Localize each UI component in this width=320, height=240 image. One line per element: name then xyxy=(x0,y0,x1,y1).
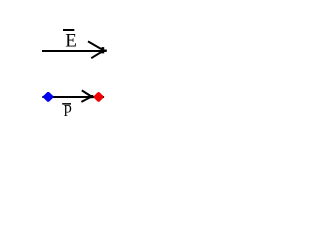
vector p shaft xyxy=(42,96,104,98)
vector E arrowhead xyxy=(88,41,104,58)
vector p arrowhead xyxy=(81,90,91,102)
label p overline xyxy=(62,103,71,105)
svg-text:p: p xyxy=(64,100,72,117)
positive charge red diamond xyxy=(94,92,104,102)
label E overline xyxy=(63,29,74,31)
vector E shaft xyxy=(42,50,106,52)
svg-text:E: E xyxy=(65,31,77,52)
negative charge blue diamond xyxy=(43,92,53,102)
